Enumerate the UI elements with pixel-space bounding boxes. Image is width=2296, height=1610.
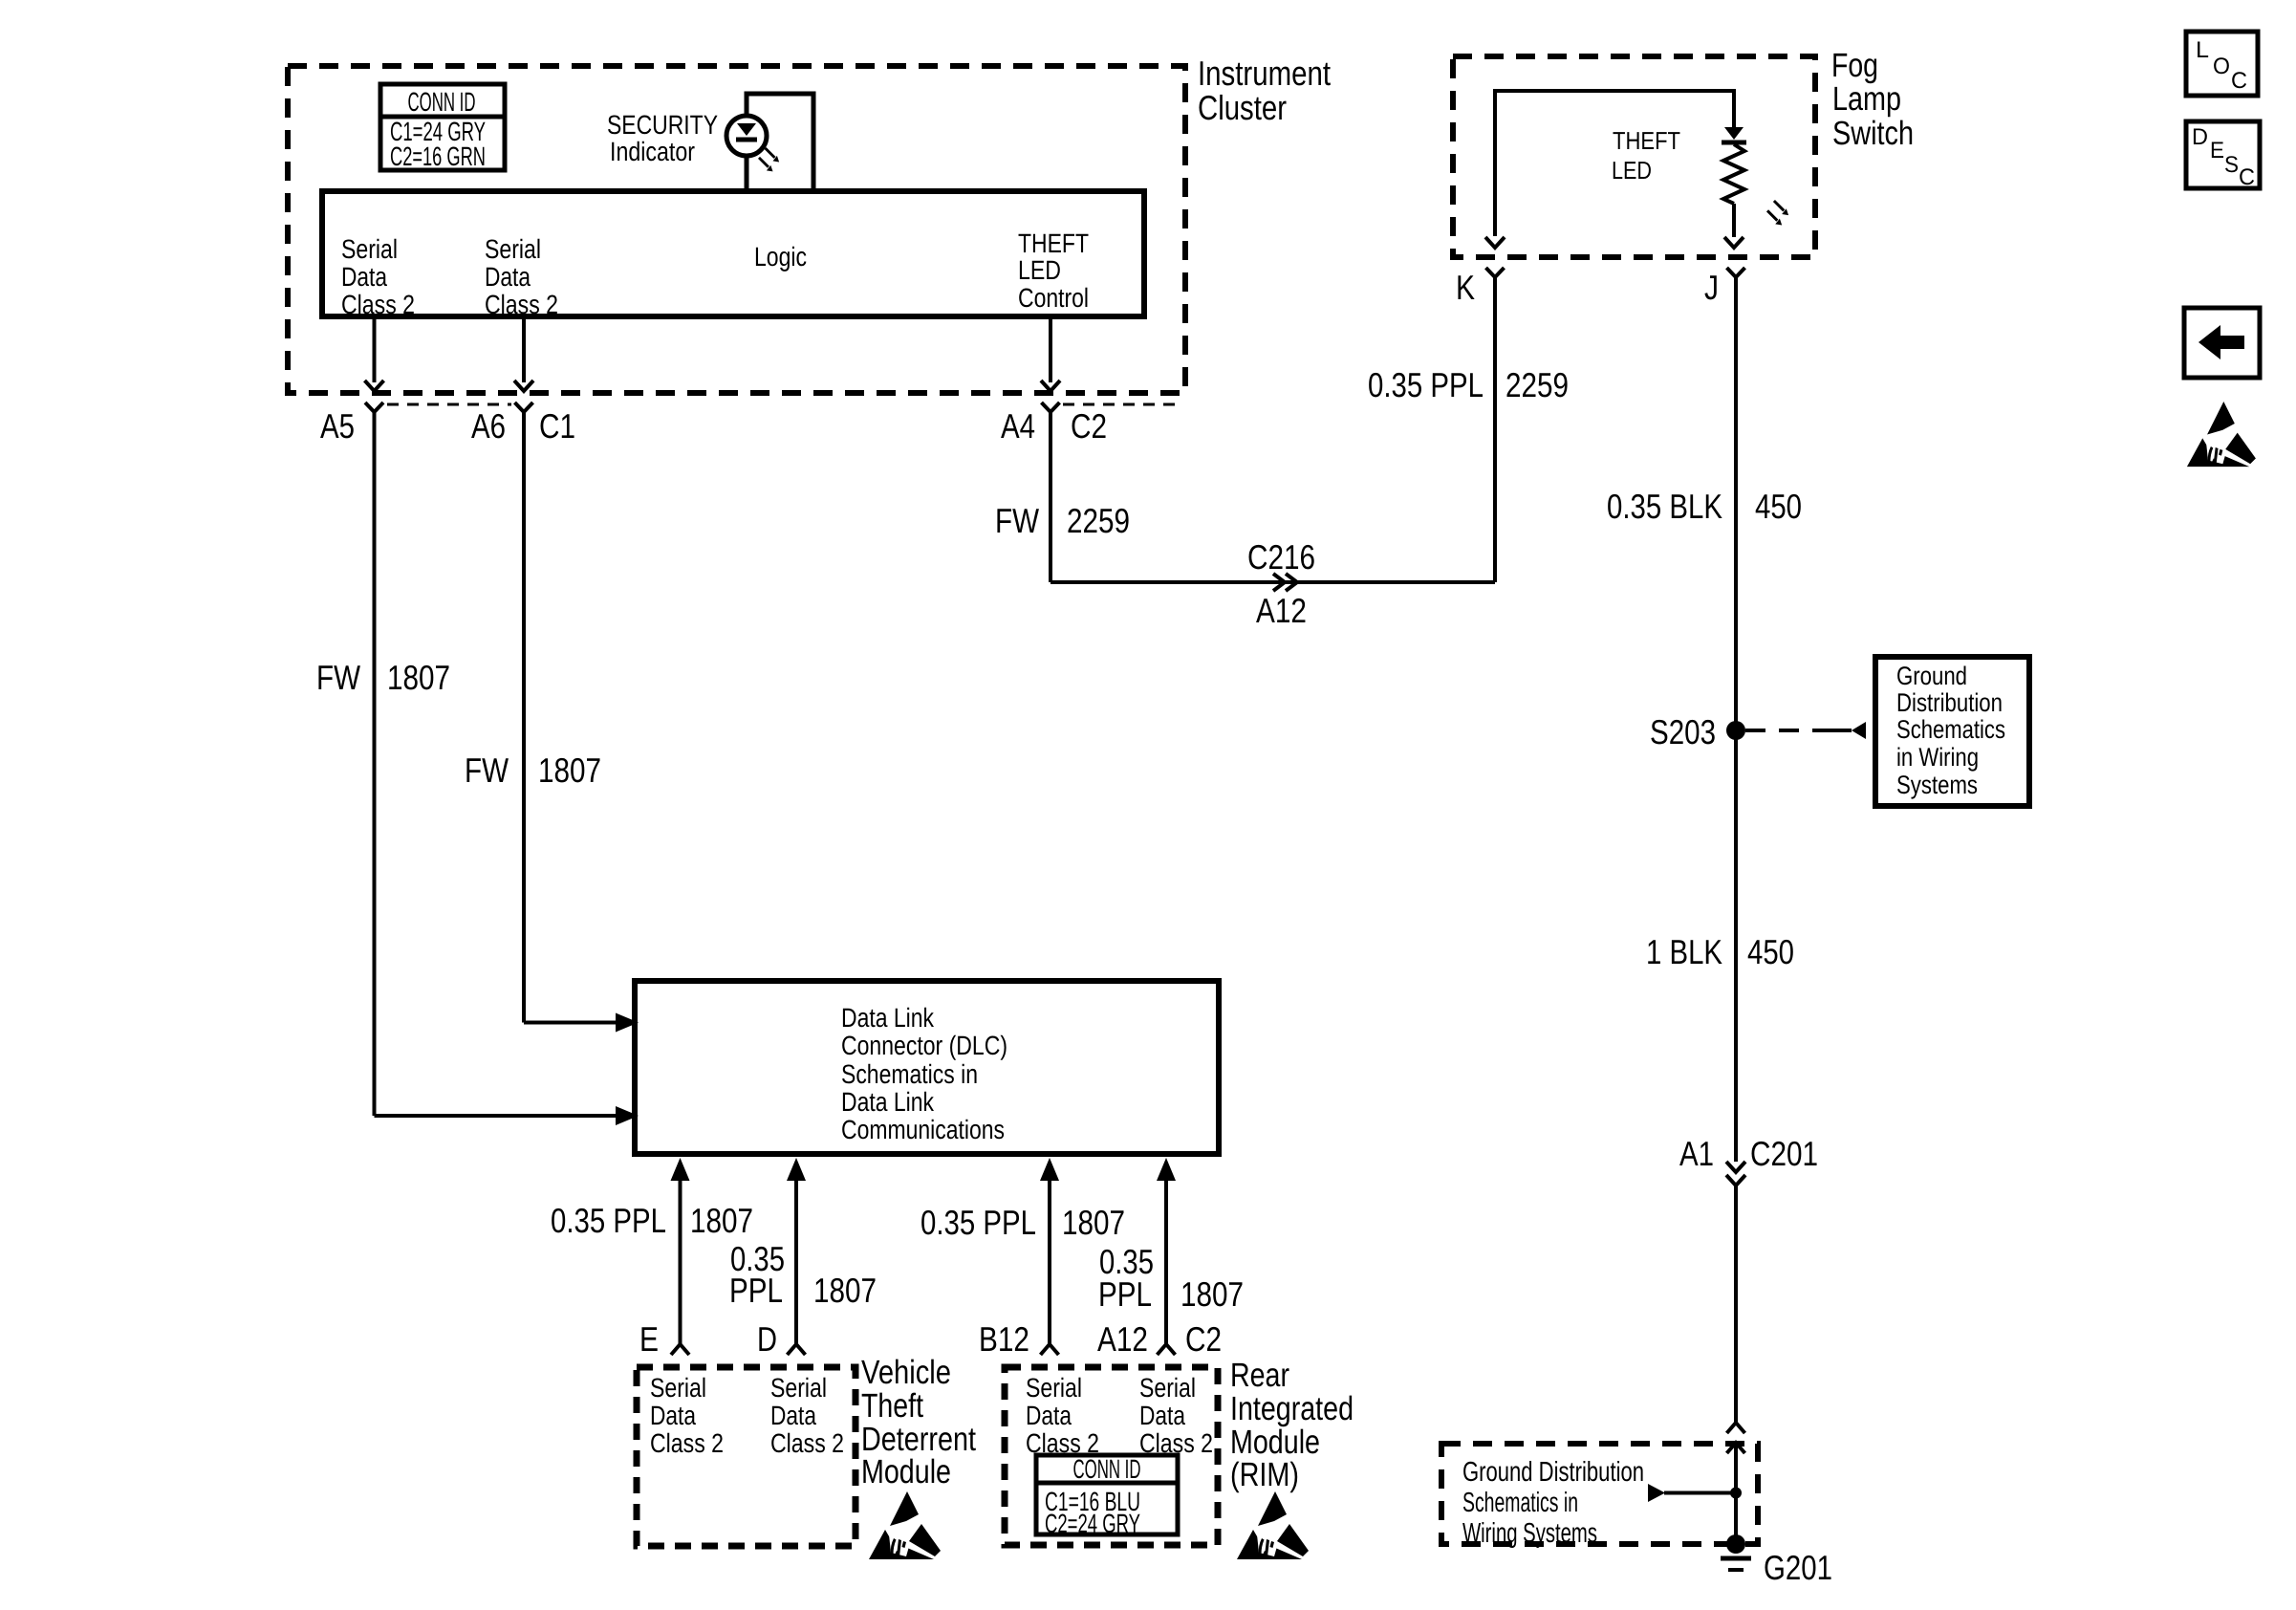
ground G201 symbol xyxy=(1726,1534,1745,1554)
back arrow icon xyxy=(2184,308,2260,378)
svg-text:Serial: Serial xyxy=(650,1373,706,1403)
security indicator LED circle xyxy=(726,116,767,156)
svg-text:FW: FW xyxy=(995,501,1039,540)
security indicator LED lamp loop xyxy=(747,94,813,191)
svg-text:Rear: Rear xyxy=(1230,1357,1289,1394)
svg-text:Data: Data xyxy=(1139,1401,1185,1430)
svg-text:FW: FW xyxy=(465,751,509,790)
svg-text:S203: S203 xyxy=(1650,712,1716,751)
wire from Serial Data Class 2 to A5 xyxy=(373,319,377,382)
connector pin A4 C2 xyxy=(1042,402,1060,412)
ground distribution dashed box (bottom) xyxy=(1441,1444,1758,1544)
svg-text:J: J xyxy=(1704,268,1719,307)
fog lamp switch internal wire top xyxy=(1495,91,1734,236)
instrument cluster internal box xyxy=(322,191,1144,316)
svg-text:LED: LED xyxy=(1018,255,1061,285)
svg-text:Data: Data xyxy=(650,1401,696,1430)
svg-text:D: D xyxy=(757,1319,777,1359)
Vehicle Theft Deterrent Module dashed box xyxy=(637,1367,856,1546)
connector at ground box (upper half) xyxy=(1727,1423,1745,1433)
svg-text:L: L xyxy=(2196,37,2209,63)
svg-text:CONN ID: CONN ID xyxy=(1073,1454,1141,1484)
svg-text:THEFT: THEFT xyxy=(1613,126,1680,155)
svg-text:Instrument: Instrument xyxy=(1198,54,1331,93)
svg-text:Data: Data xyxy=(1026,1401,1072,1430)
svg-text:1 BLK: 1 BLK xyxy=(1646,932,1722,971)
wire from THEFT LED Control to A4 xyxy=(1049,319,1052,382)
svg-text:FW: FW xyxy=(316,658,360,697)
svg-text:Class 2: Class 2 xyxy=(485,290,558,319)
svg-text:C2=24 GRY: C2=24 GRY xyxy=(1045,1509,1140,1538)
wire A5 to DLC xyxy=(375,1114,617,1118)
svg-text:C1: C1 xyxy=(539,406,575,446)
connector C1 body dashed line xyxy=(387,403,511,406)
svg-text:1807: 1807 xyxy=(387,658,450,697)
svg-text:Ground Distribution: Ground Distribution xyxy=(1462,1457,1644,1488)
wire A6 down xyxy=(522,412,526,1023)
instrument cluster dashed outline xyxy=(288,66,1185,393)
svg-text:K: K xyxy=(1456,268,1475,307)
connector C2 body dashed line xyxy=(1063,403,1183,406)
reference arrow to ground distribution box xyxy=(1852,722,1866,739)
svg-text:Switch: Switch xyxy=(1832,115,1914,152)
svg-text:2259: 2259 xyxy=(1067,501,1130,540)
svg-text:Serial: Serial xyxy=(485,234,541,264)
svg-text:E: E xyxy=(639,1319,659,1359)
svg-text:Data: Data xyxy=(770,1401,816,1430)
connector pin A12 C2 xyxy=(1158,1344,1176,1355)
svg-text:Cluster: Cluster xyxy=(1198,88,1287,127)
wire D to DLC xyxy=(787,1158,806,1181)
connector pin A6 C1 xyxy=(515,402,533,412)
svg-text:1807: 1807 xyxy=(1062,1203,1125,1242)
svg-text:0.35 BLK: 0.35 BLK xyxy=(1607,487,1722,526)
Data Link Connector box xyxy=(635,981,1219,1154)
svg-text:C201: C201 xyxy=(1750,1134,1818,1173)
wire B12 to DLC xyxy=(1040,1158,1059,1181)
in-line connector C216 chevrons xyxy=(1273,574,1285,591)
svg-text:E: E xyxy=(2210,138,2224,163)
svg-text:Distribution: Distribution xyxy=(1896,688,2003,717)
svg-text:SECURITY: SECURITY xyxy=(607,110,718,140)
svg-text:Fog: Fog xyxy=(1831,47,1878,84)
svg-text:C2: C2 xyxy=(1071,406,1107,446)
LOC icon xyxy=(2186,32,2258,96)
svg-text:A12: A12 xyxy=(1256,591,1307,630)
svg-text:1807: 1807 xyxy=(690,1201,753,1240)
arrow to K xyxy=(1485,237,1505,248)
svg-text:Class 2: Class 2 xyxy=(650,1428,724,1458)
svg-text:Control: Control xyxy=(1018,283,1089,313)
svg-text:1807: 1807 xyxy=(813,1271,877,1310)
svg-text:Integrated: Integrated xyxy=(1230,1390,1354,1427)
ESD symbol (Vehicle Theft Deterrent Module) xyxy=(869,1491,941,1559)
svg-text:Class 2: Class 2 xyxy=(770,1428,844,1458)
ESD symbol icon (right margin) xyxy=(2187,402,2256,467)
connector pin J xyxy=(1727,268,1745,277)
svg-text:S: S xyxy=(2224,152,2239,178)
svg-text:A12: A12 xyxy=(1097,1319,1148,1359)
connector pin A5 xyxy=(365,402,383,412)
wire A6 to DLC xyxy=(524,1021,616,1025)
svg-text:Systems: Systems xyxy=(1896,771,1978,799)
fog lamp switch dashed outline xyxy=(1453,56,1815,257)
junction dot xyxy=(1730,1488,1742,1499)
svg-text:THEFT: THEFT xyxy=(1018,228,1089,258)
splice S203 xyxy=(1726,721,1745,740)
resistor emission arrows xyxy=(1767,201,1788,226)
wire A12 C2 to DLC xyxy=(1157,1158,1176,1181)
svg-text:A5: A5 xyxy=(320,406,355,446)
svg-text:(RIM): (RIM) xyxy=(1230,1456,1299,1493)
svg-text:G201: G201 xyxy=(1764,1548,1832,1587)
svg-text:Serial: Serial xyxy=(1139,1373,1196,1403)
svg-text:Data: Data xyxy=(485,262,531,292)
svg-text:0.35 PPL: 0.35 PPL xyxy=(551,1201,666,1240)
svg-text:CONN ID: CONN ID xyxy=(408,87,476,117)
svg-text:Vehicle: Vehicle xyxy=(861,1354,951,1391)
in-line connector C201 chevrons xyxy=(1726,1162,1745,1172)
svg-text:C: C xyxy=(2231,68,2247,94)
svg-text:Data: Data xyxy=(341,262,387,292)
svg-text:A1: A1 xyxy=(1679,1134,1714,1173)
svg-text:Schematics in: Schematics in xyxy=(1462,1488,1578,1518)
svg-text:C: C xyxy=(2239,164,2255,190)
svg-text:Communications: Communications xyxy=(841,1115,1005,1144)
Rear Integrated Module dashed box xyxy=(1005,1367,1218,1545)
svg-text:Indicator: Indicator xyxy=(610,137,695,166)
DESC icon xyxy=(2186,121,2260,188)
svg-text:O: O xyxy=(2213,54,2230,79)
svg-text:C2=16 GRN: C2=16 GRN xyxy=(390,141,486,171)
svg-text:Schematics in: Schematics in xyxy=(841,1059,978,1089)
theft LED diode xyxy=(1724,127,1744,140)
ground distribution schematics box (right) xyxy=(1875,657,2029,806)
connector ID table C1/C2 (RIM) xyxy=(1036,1455,1178,1534)
wire K down xyxy=(1493,277,1497,582)
svg-text:0.35 PPL: 0.35 PPL xyxy=(1368,365,1484,404)
svg-text:Logic: Logic xyxy=(754,242,807,272)
svg-text:PPL: PPL xyxy=(729,1271,783,1310)
svg-text:2259: 2259 xyxy=(1505,365,1569,404)
wire resistor to J xyxy=(1732,204,1736,237)
svg-text:Connector (DLC): Connector (DLC) xyxy=(841,1031,1007,1060)
svg-text:A6: A6 xyxy=(471,406,506,446)
svg-text:Lamp: Lamp xyxy=(1832,80,1901,118)
svg-text:1807: 1807 xyxy=(538,751,601,790)
svg-text:Serial: Serial xyxy=(770,1373,827,1403)
dashed reference line from S203 xyxy=(1745,729,1830,732)
connector at ground box (lower half) xyxy=(1727,1443,1745,1453)
svg-text:Data Link: Data Link xyxy=(841,1087,935,1117)
svg-text:Data Link: Data Link xyxy=(841,1003,935,1033)
wire A5 down xyxy=(373,412,377,1116)
connector pin K xyxy=(1486,268,1505,277)
svg-text:Serial: Serial xyxy=(1026,1373,1082,1403)
svg-text:Schematics: Schematics xyxy=(1896,715,2005,744)
svg-text:0.35 PPL: 0.35 PPL xyxy=(921,1203,1036,1242)
wire to ground xyxy=(1734,1446,1738,1544)
svg-text:Theft: Theft xyxy=(861,1387,923,1425)
wire A4 down xyxy=(1049,412,1052,582)
internal ground wire with arrow xyxy=(1664,1491,1736,1495)
svg-text:450: 450 xyxy=(1755,487,1802,526)
theft LED resistor xyxy=(1723,144,1744,204)
wire C2 A4 horizontal to K xyxy=(1051,580,1495,584)
svg-text:PPL: PPL xyxy=(1098,1274,1152,1314)
svg-text:C216: C216 xyxy=(1247,537,1315,577)
connector pin B12 xyxy=(1041,1344,1059,1355)
svg-text:Wiring Systems: Wiring Systems xyxy=(1462,1518,1597,1549)
ESD symbol (RIM) xyxy=(1237,1491,1309,1559)
svg-text:Module: Module xyxy=(861,1453,951,1490)
svg-text:A4: A4 xyxy=(1001,406,1035,446)
svg-text:450: 450 xyxy=(1747,932,1794,971)
svg-text:B12: B12 xyxy=(979,1319,1029,1359)
svg-text:Class 2: Class 2 xyxy=(341,290,415,319)
wire E to DLC xyxy=(671,1158,690,1181)
connector ID table C1/C2 (instrument cluster) xyxy=(380,84,505,170)
LED emission arrows xyxy=(759,148,779,171)
svg-text:C2: C2 xyxy=(1185,1319,1222,1359)
wire J down xyxy=(1734,277,1738,1162)
svg-text:D: D xyxy=(2192,124,2208,150)
svg-text:Serial: Serial xyxy=(341,234,398,264)
connector pin D xyxy=(788,1344,806,1355)
svg-text:1807: 1807 xyxy=(1180,1274,1244,1314)
connector pin E xyxy=(671,1344,689,1355)
LED diode symbol xyxy=(737,123,756,136)
wire from Serial Data Class 2 to A6 xyxy=(522,319,526,382)
svg-text:Ground: Ground xyxy=(1896,662,1967,690)
wire C201 down xyxy=(1734,1186,1738,1423)
svg-text:in Wiring: in Wiring xyxy=(1896,743,1979,772)
svg-text:LED: LED xyxy=(1612,156,1652,185)
